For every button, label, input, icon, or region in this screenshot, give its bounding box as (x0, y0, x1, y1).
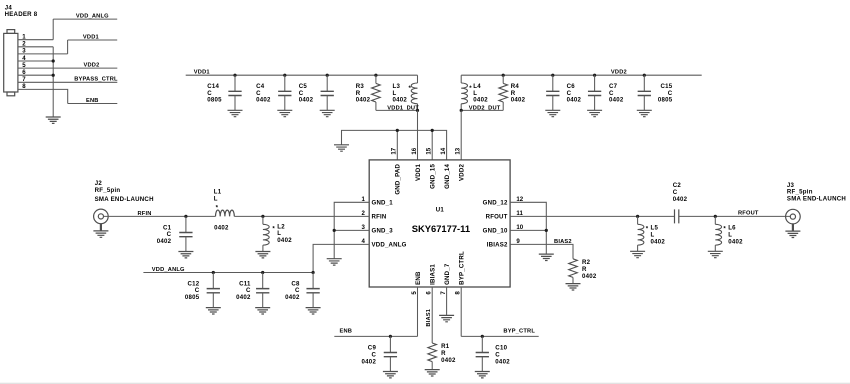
svg-text:*: * (409, 85, 412, 92)
inductor L1 (214, 189, 234, 232)
svg-text:7: 7 (440, 291, 447, 295)
wire U1 pin3 stub (334, 229, 369, 231)
U1 left pin names (372, 200, 407, 249)
junction pin6 (52, 74, 55, 77)
node RFIN (104, 211, 370, 217)
connector J3 labels (787, 182, 846, 202)
junction pin3 (333, 229, 336, 232)
node VDD2_DUT (461, 105, 503, 111)
junction C1 (184, 215, 187, 218)
node VDD_ANLG (53, 13, 117, 19)
wire U1 pin9 stub (510, 244, 573, 258)
svg-text:VDD_ANLG: VDD_ANLG (76, 13, 109, 19)
svg-text:GND_PAD: GND_PAD (395, 164, 402, 195)
capacitor C12 (185, 273, 221, 315)
junction L5 (636, 215, 639, 218)
junction C8 (312, 271, 315, 274)
junction C14 (233, 74, 236, 77)
svg-text:*: * (469, 85, 472, 92)
svg-text:GND_15: GND_15 (430, 164, 437, 189)
svg-text:GND_12: GND_12 (483, 200, 508, 207)
svg-text:8: 8 (455, 291, 462, 295)
U1 bottom pin names (415, 251, 466, 285)
svg-text:R: R (582, 266, 587, 273)
svg-text:R: R (441, 350, 446, 357)
svg-text:ENB: ENB (86, 98, 99, 104)
ground L6 (708, 251, 723, 257)
svg-text:VDD2: VDD2 (611, 70, 627, 76)
wire pin15 riser (431, 130, 433, 160)
svg-text:VDD2: VDD2 (459, 163, 466, 180)
svg-text:IBIAS1: IBIAS1 (430, 264, 437, 285)
ground R2 (566, 284, 581, 290)
node BYPASS_CTRL (18, 77, 118, 83)
svg-text:0805: 0805 (185, 294, 200, 301)
svg-text:0402: 0402 (157, 238, 172, 245)
svg-text:5: 5 (411, 291, 418, 295)
wire J4 pin4 stub (18, 60, 53, 62)
svg-text:0402: 0402 (356, 97, 371, 104)
junction C15 (643, 74, 646, 77)
svg-text:BIAS1: BIAS1 (426, 309, 432, 327)
node ENB bottom (334, 329, 417, 337)
capacitor C11 (236, 273, 270, 315)
ground pin7 (439, 315, 454, 321)
svg-text:GND_7: GND_7 (444, 263, 451, 285)
J4 pin numbers 1-8 (22, 34, 26, 91)
ground top bus (334, 145, 349, 151)
node ENB (68, 98, 118, 104)
resistor R4 (499, 75, 526, 110)
svg-text:0402: 0402 (236, 294, 251, 301)
svg-text:L: L (214, 195, 218, 202)
capacitor C6 (545, 75, 581, 117)
ground pins 1 and 3 (327, 259, 342, 265)
U1 right pin names (483, 200, 508, 249)
junction pin15 (431, 129, 434, 132)
U1 right pin numbers (516, 196, 523, 245)
wire U1 pin1 stub (334, 202, 369, 258)
svg-text:GND_10: GND_10 (483, 228, 508, 235)
capacitor C7 (587, 75, 624, 117)
svg-text:C: C (673, 189, 678, 196)
svg-text:*: * (723, 225, 726, 232)
connector J2 SMA symbol (93, 209, 108, 237)
ground L2 (255, 252, 270, 258)
svg-text:GND_14: GND_14 (444, 164, 451, 189)
wire U1 pin10 stub (510, 229, 546, 231)
op-amp U1 SKY67177-11 body (369, 160, 510, 287)
capacitor C1 (157, 216, 194, 258)
wire U1 pin7 drop (446, 287, 448, 315)
resistor R3 (356, 75, 381, 110)
connector J4 HEADER 8 (4, 4, 38, 96)
resistor R1 (428, 343, 456, 370)
svg-text:6: 6 (426, 291, 433, 295)
svg-text:L5: L5 (651, 224, 659, 231)
svg-text:0402: 0402 (393, 97, 408, 104)
inductor L6 (715, 216, 743, 251)
U1 top pin numbers (391, 147, 462, 154)
svg-text:HEADER 8: HEADER 8 (5, 11, 38, 18)
wire VDD_ANLG riser to pin4 (313, 244, 369, 272)
svg-text:13: 13 (455, 147, 462, 154)
svg-text:VDD2: VDD2 (84, 62, 100, 68)
junction C11 (261, 271, 264, 274)
wire J4 pin1 stub (18, 39, 53, 41)
svg-text:SMA END-LAUNCH: SMA END-LAUNCH (95, 196, 154, 203)
junction C9 (389, 335, 392, 338)
junction R3 top (374, 74, 377, 77)
junction C10 (481, 335, 484, 338)
wire pin1 riser to VDD_ANLG (52, 19, 54, 40)
svg-text:L: L (728, 231, 732, 238)
svg-text:BYP_CTRL: BYP_CTRL (459, 251, 466, 285)
svg-text:VDD1: VDD1 (415, 163, 422, 180)
svg-text:0402: 0402 (728, 238, 743, 245)
svg-text:R2: R2 (582, 259, 591, 266)
wire J4 pin2 stub (18, 46, 53, 48)
svg-text:0402: 0402 (511, 97, 526, 104)
U1 left pin numbers (362, 196, 366, 245)
junction L6 (714, 215, 717, 218)
svg-text:0402: 0402 (256, 97, 271, 104)
svg-text:*: * (646, 225, 649, 232)
junction C5 (326, 74, 329, 77)
svg-text:C9: C9 (368, 344, 377, 351)
svg-text:VDD1: VDD1 (194, 70, 210, 76)
svg-text:0402: 0402 (299, 97, 314, 104)
junction C7 (593, 74, 596, 77)
svg-text:RF_5pin: RF_5pin (95, 187, 121, 194)
svg-text:0805: 0805 (207, 97, 222, 104)
svg-text:0402: 0402 (473, 97, 488, 104)
ground J4 (46, 117, 61, 123)
svg-text:15: 15 (426, 147, 433, 154)
junction C4 (283, 74, 286, 77)
svg-text:RFIN: RFIN (372, 214, 387, 221)
svg-text:SKY67177-11: SKY67177-11 (412, 223, 470, 234)
inductor L2 (263, 216, 292, 251)
svg-text:0402: 0402 (609, 97, 624, 104)
svg-text:BYP_CTRL: BYP_CTRL (503, 329, 535, 335)
junction L2 (261, 215, 264, 218)
inductor L4 (461, 75, 488, 110)
node VDD2 rail (461, 70, 702, 76)
svg-text:L6: L6 (728, 224, 736, 231)
capacitor C9 (362, 336, 398, 378)
wire VDD1_DUT riser to pin16 (417, 110, 419, 159)
node BYP_CTRL (461, 329, 539, 337)
junction VDD1_DUT (416, 109, 419, 112)
U1 top pin names (395, 163, 466, 194)
svg-text:0402: 0402 (651, 238, 666, 245)
node VDD2 (18, 62, 117, 68)
node VDD_ANLG rail (143, 267, 313, 273)
svg-text:C: C (371, 351, 376, 358)
svg-text:L: L (651, 231, 655, 238)
svg-text:BIAS2: BIAS2 (554, 239, 572, 245)
svg-text:C2: C2 (673, 182, 682, 189)
svg-text:IBIAS2: IBIAS2 (487, 242, 508, 249)
wire U1 pin12 stub (510, 202, 546, 254)
wire pin17 riser (396, 130, 398, 160)
capacitor C4 (256, 75, 292, 117)
ground L5 (630, 251, 645, 257)
junction C6 (551, 74, 554, 77)
svg-text:C: C (495, 351, 500, 358)
svg-text:RFOUT: RFOUT (738, 211, 759, 217)
svg-text:14: 14 (440, 147, 447, 154)
U1 bottom pin numbers (411, 291, 462, 295)
svg-text:0402: 0402 (277, 237, 292, 244)
resistor R2 (569, 259, 597, 284)
capacitor C8 (285, 273, 320, 315)
node RFOUT wire (510, 211, 790, 217)
svg-text:*: * (272, 225, 275, 232)
capacitor C5 (299, 75, 335, 117)
node VDD1 (68, 34, 118, 40)
svg-text:0402: 0402 (214, 224, 229, 231)
wire J4 pin3 stub (18, 53, 68, 55)
wire U1 pin6 drop (431, 287, 433, 343)
node VDD1 rail (186, 70, 418, 76)
wire ground chain vertical (52, 47, 54, 117)
svg-text:SMA END-LAUNCH: SMA END-LAUNCH (787, 196, 846, 203)
capacitor C15 (637, 75, 673, 117)
wire U1 pin5 drop (417, 287, 419, 336)
svg-text:RFOUT: RFOUT (486, 214, 508, 221)
svg-text:C10: C10 (495, 344, 507, 351)
junction C12 (212, 271, 215, 274)
ground R1 (425, 370, 440, 376)
svg-text:0402: 0402 (285, 294, 300, 301)
junction pin10 (545, 229, 548, 232)
svg-text:ENB: ENB (340, 329, 353, 335)
junction VDD2_DUT (460, 109, 463, 112)
svg-text:R1: R1 (441, 343, 450, 350)
svg-text:16: 16 (411, 147, 418, 154)
ground pins 12 and 10 (539, 254, 554, 260)
svg-text:0805: 0805 (658, 97, 673, 104)
svg-text:17: 17 (391, 147, 398, 154)
svg-text:ENB: ENB (415, 271, 422, 285)
wire J4 pin6 stub (18, 74, 53, 76)
wire ground bus pins 17 15 14 (342, 130, 447, 160)
svg-text:VDD_ANLG: VDD_ANLG (372, 242, 407, 249)
junction pin17 (396, 129, 399, 132)
wire U1 pin8 drop (460, 287, 462, 336)
svg-text:BYPASS_CTRL: BYPASS_CTRL (74, 77, 118, 83)
wire pin3 riser to VDD1 (67, 40, 69, 54)
junction R4 top (502, 74, 505, 77)
page bottom border (0, 382, 850, 384)
connector J2 labels (95, 180, 154, 203)
svg-text:GND_1: GND_1 (372, 200, 394, 207)
junction pin4 (52, 59, 55, 62)
wire VDD2_DUT riser to pin13 (460, 110, 462, 159)
capacitor C10 (475, 336, 510, 378)
node VDD1_DUT (376, 105, 419, 111)
inductor L5 (638, 216, 666, 251)
svg-text:*: * (216, 205, 219, 212)
svg-text:GND_3: GND_3 (372, 228, 394, 235)
svg-text:0402: 0402 (673, 196, 688, 203)
svg-text:0402: 0402 (582, 273, 597, 280)
svg-text:VDD1: VDD1 (83, 34, 99, 40)
capacitor C2 (673, 182, 688, 223)
svg-text:U1: U1 (436, 207, 445, 214)
inductor L3 (393, 75, 418, 110)
capacitor C14 (207, 75, 242, 117)
connector J3 SMA symbol (785, 209, 800, 237)
wire J4 pin8 stub (18, 89, 68, 103)
svg-text:0402: 0402 (441, 357, 456, 364)
svg-text:0402: 0402 (362, 358, 377, 365)
svg-text:0402: 0402 (567, 97, 582, 104)
svg-text:0402: 0402 (495, 358, 510, 365)
